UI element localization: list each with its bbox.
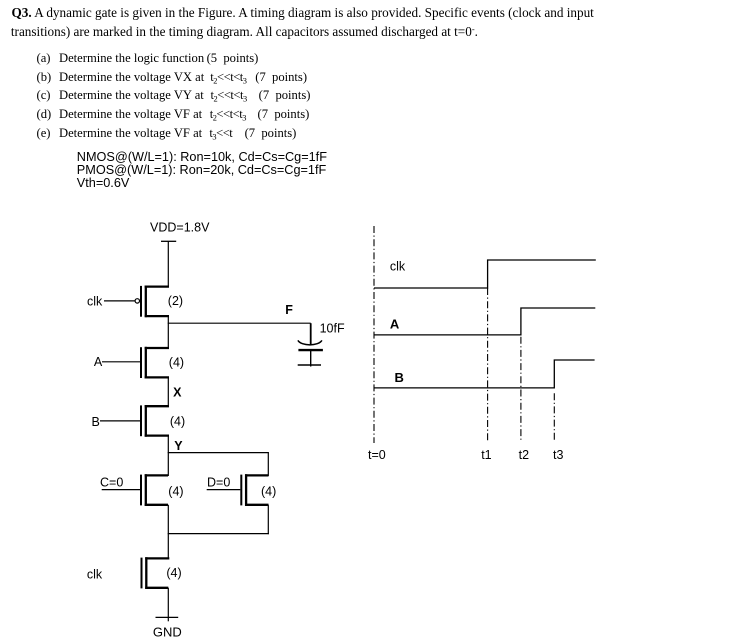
transistor M4 NMOS C <box>141 474 168 506</box>
svg-text:(4): (4) <box>169 355 184 369</box>
svg-text:C=0: C=0 <box>100 476 123 490</box>
wire node X <box>167 377 169 406</box>
wire junction to M6 drain <box>167 534 169 559</box>
svg-text:10fF: 10fF <box>320 321 345 335</box>
timing marker t1 dash-dot line <box>487 288 489 441</box>
device parameters PMOS <box>77 164 326 177</box>
label C=0 <box>100 476 123 490</box>
wire M5 source down <box>267 505 269 534</box>
svg-text:F: F <box>285 303 293 317</box>
gate wire C=0 to M4 <box>102 489 140 491</box>
label t3 <box>553 448 563 462</box>
device parameter Vth <box>77 177 130 190</box>
label clk (timing) <box>390 260 406 274</box>
svg-text:D=0: D=0 <box>207 476 230 490</box>
junction wire joining C and D sources <box>168 533 269 535</box>
label t=0 <box>368 448 386 462</box>
transistor M3 NMOS B <box>141 405 169 437</box>
svg-text:clk: clk <box>87 567 103 581</box>
label t1 <box>481 448 491 462</box>
label A <box>94 355 103 369</box>
size label (4) of M5 <box>261 485 276 499</box>
item (c) <box>37 89 299 102</box>
node Y label <box>174 439 183 453</box>
wire VDD to PMOS source <box>167 241 169 286</box>
label B <box>92 415 100 429</box>
wire M6 source to ground <box>167 588 169 622</box>
gate wire A to M2 <box>102 361 140 363</box>
svg-text:t3: t3 <box>553 448 563 462</box>
label clk (top) <box>87 294 103 308</box>
wire M1 drain to node F <box>167 316 169 323</box>
label B (timing) <box>395 370 404 385</box>
svg-text:GND: GND <box>153 625 182 640</box>
label D=0 <box>207 476 230 490</box>
problem statement line 1 <box>12 6 594 19</box>
capacitor lead from F <box>310 323 312 345</box>
capacitor 10fF curved plate <box>298 340 322 344</box>
svg-text:X: X <box>173 386 182 400</box>
svg-text:(4): (4) <box>261 485 276 499</box>
problem statement line 2 <box>11 25 478 38</box>
wire node Y <box>167 436 169 476</box>
svg-text:VDD=1.8V: VDD=1.8V <box>150 221 210 235</box>
label GND <box>153 625 182 640</box>
transistor M1 PMOS (clk) <box>135 286 169 318</box>
size label (2) <box>168 294 183 308</box>
gate wire clk to M1 <box>104 300 135 302</box>
timing marker t2 dash-dot line <box>520 337 522 440</box>
capacitor ground plate <box>298 364 321 366</box>
svg-text:clk: clk <box>390 260 406 274</box>
timing marker t3 dash-dot line <box>553 393 555 440</box>
size label (4) of M3 <box>170 415 185 429</box>
size label (4) of M4 <box>168 485 183 499</box>
node X label <box>173 386 182 400</box>
gate wire B to M3 <box>100 420 140 422</box>
label t2 <box>519 448 529 462</box>
svg-text:Y: Y <box>174 439 183 453</box>
size label (4) of M2 <box>169 355 184 369</box>
label 10fF <box>320 321 345 335</box>
svg-text:A: A <box>94 355 103 369</box>
transistor M6 NMOS clk (footer) <box>142 557 170 589</box>
svg-text:t=0: t=0 <box>368 448 386 462</box>
svg-text:(4): (4) <box>166 566 181 580</box>
svg-text:A: A <box>390 317 400 332</box>
svg-text:B: B <box>92 415 100 429</box>
svg-text:(2): (2) <box>168 294 183 308</box>
label clk (footer) <box>87 567 103 581</box>
VDD label "VDD=1.8V" <box>150 221 210 235</box>
timing axis t=0 dash-dot line <box>373 226 375 443</box>
device parameters NMOS <box>77 151 327 164</box>
transistor M2 NMOS A <box>141 347 169 379</box>
item (e) <box>37 127 284 140</box>
item (d) <box>37 108 297 121</box>
VDD supply bar <box>161 240 176 242</box>
wire Y to M5 drain <box>267 453 269 476</box>
svg-text:t1: t1 <box>481 448 491 462</box>
wire node F to M2 drain <box>167 323 169 348</box>
node F wire <box>168 322 311 324</box>
svg-text:clk: clk <box>87 294 103 308</box>
ground <box>156 616 179 618</box>
item (b) <box>37 71 299 84</box>
transistor M5 NMOS D <box>241 474 268 506</box>
svg-text:(4): (4) <box>168 485 183 499</box>
clk waveform <box>374 260 596 288</box>
capacitor lower lead <box>310 350 312 366</box>
gate wire D=0 to M5 <box>207 489 241 491</box>
svg-text:(4): (4) <box>170 415 185 429</box>
svg-text:B: B <box>395 370 404 385</box>
size label (4) of M6 <box>166 566 181 580</box>
node Y horizontal wire to D branch <box>168 452 269 454</box>
B waveform <box>374 360 595 388</box>
label F <box>285 303 293 317</box>
item (a) <box>37 52 260 65</box>
svg-text:t2: t2 <box>519 448 529 462</box>
A waveform <box>374 308 595 335</box>
label A (timing) <box>390 317 400 332</box>
capacitor 10fF straight plate <box>298 349 323 351</box>
wire M4 source down <box>167 505 169 534</box>
